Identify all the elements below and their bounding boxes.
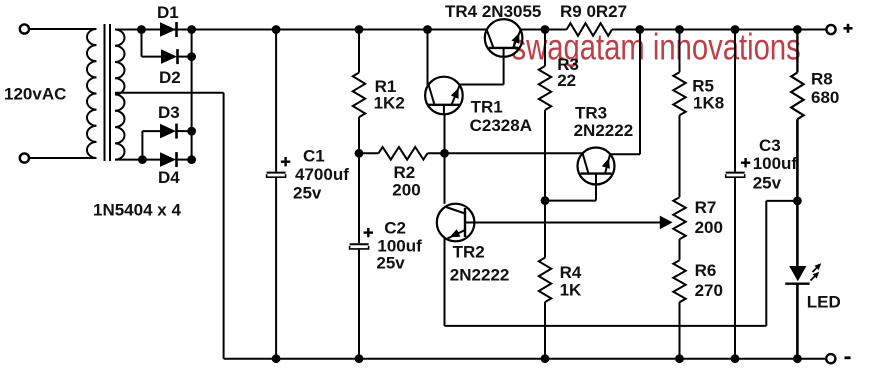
svg-text:R5: R5 <box>692 76 714 95</box>
svg-text:270: 270 <box>695 281 723 300</box>
svg-text:1K2: 1K2 <box>374 94 405 113</box>
svg-text:D4: D4 <box>158 168 180 187</box>
svg-text:680: 680 <box>811 88 839 107</box>
svg-text:25v: 25v <box>376 254 405 273</box>
svg-text:1K8: 1K8 <box>693 94 724 113</box>
svg-text:100uf: 100uf <box>753 154 798 173</box>
svg-text:C3: C3 <box>759 136 781 155</box>
svg-text:C1: C1 <box>303 146 325 165</box>
svg-text:1K: 1K <box>560 281 582 300</box>
svg-text:TR1: TR1 <box>471 98 503 117</box>
svg-text:25v: 25v <box>293 184 322 203</box>
svg-text:R4: R4 <box>560 263 582 282</box>
svg-text:D3: D3 <box>158 103 180 122</box>
svg-text:R8: R8 <box>811 70 833 89</box>
svg-text:1N5404 x 4: 1N5404 x 4 <box>93 200 181 219</box>
svg-text:swagatam innovations: swagatam innovations <box>512 27 801 68</box>
svg-text:D2: D2 <box>159 68 181 87</box>
svg-text:R6: R6 <box>695 261 717 280</box>
svg-text:R9 0R27: R9 0R27 <box>560 2 627 21</box>
svg-text:D1: D1 <box>157 3 179 22</box>
svg-text:LED: LED <box>807 293 841 312</box>
svg-text:TR3: TR3 <box>575 104 607 123</box>
svg-text:22: 22 <box>557 71 576 90</box>
svg-text:200: 200 <box>392 181 420 200</box>
svg-text:TR2: TR2 <box>453 243 485 262</box>
svg-text:TR4 2N3055: TR4 2N3055 <box>445 2 541 21</box>
svg-text:R7: R7 <box>695 198 717 217</box>
svg-text:R2: R2 <box>394 163 416 182</box>
svg-text:C2: C2 <box>384 219 406 238</box>
svg-text:C2328A: C2328A <box>470 116 532 135</box>
svg-text:120vAC: 120vAC <box>4 85 66 104</box>
svg-text:200: 200 <box>695 218 723 237</box>
svg-text:25v: 25v <box>753 174 782 193</box>
svg-text:4700uf: 4700uf <box>295 165 349 184</box>
svg-text:2N2222: 2N2222 <box>574 121 634 140</box>
svg-text:2N2222: 2N2222 <box>450 266 510 285</box>
svg-text:100uf: 100uf <box>377 236 422 255</box>
